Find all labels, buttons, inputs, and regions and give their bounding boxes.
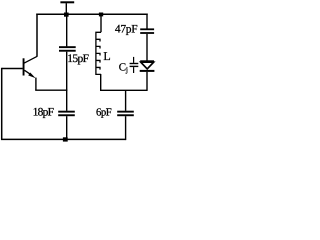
wire: left rail down xyxy=(1,68,3,140)
wire: inductor bottom drop xyxy=(100,74,102,90)
wire: emitter vertical drop xyxy=(35,78,37,91)
wire: emitter horizontal to divider tap xyxy=(35,89,67,91)
wire: right branch top vertical xyxy=(146,14,148,29)
wire: supply stub xyxy=(65,3,67,14)
capacitor C2 18pF xyxy=(58,111,75,113)
svg-text:j: j xyxy=(125,65,128,74)
node junction at supply/divider tap xyxy=(64,13,69,17)
node junction at inductor tap xyxy=(99,13,103,17)
wire: lower right rail horizontal xyxy=(100,89,147,91)
wire: divider string lower segment xyxy=(66,116,68,139)
inductor L coil xyxy=(96,32,101,74)
wire: 6pF top lead xyxy=(125,90,127,111)
diode D1 cathode bar xyxy=(140,70,155,72)
wire: top rail xyxy=(36,13,147,15)
transistor Q1 base bar xyxy=(23,58,25,75)
wire: right branch between 47pF and diode xyxy=(146,34,148,61)
wire: base lead xyxy=(2,68,23,70)
junction-capacitance glyph (small capacitor symbol) xyxy=(133,57,135,63)
svg-text:6pF: 6pF xyxy=(96,106,112,118)
wire: divider string upper segment xyxy=(66,16,68,47)
wire: bottom rail xyxy=(1,138,126,140)
svg-text:L: L xyxy=(103,49,110,63)
svg-text:15pF: 15pF xyxy=(67,53,88,65)
node junction at bottom of divider xyxy=(63,137,68,141)
wire: right branch below diode xyxy=(146,72,148,91)
svg-text:47pF: 47pF xyxy=(115,23,137,35)
wire: collector diagonal into transistor xyxy=(24,56,37,63)
svg-text:18pF: 18pF xyxy=(33,107,54,119)
wire: inductor top stub xyxy=(100,16,102,33)
capacitor C3 6pF xyxy=(117,111,134,113)
wire: collector vertical xyxy=(36,14,38,57)
power supply bar (+V) xyxy=(60,1,74,3)
wire: 6pF bottom lead xyxy=(125,116,127,140)
transistor Q1 emitter with arrow xyxy=(25,70,32,74)
capacitor C4 47pF xyxy=(140,28,154,30)
capacitor C1 15pF xyxy=(59,46,76,48)
diode D1 triangle xyxy=(141,62,154,69)
wire: divider string middle segment xyxy=(66,52,68,111)
diode D1 (varactor) anode bar xyxy=(140,60,154,62)
